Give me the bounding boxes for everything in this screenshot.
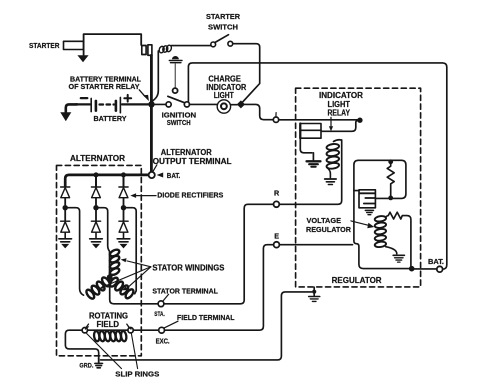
wire (relay coil right line to R wire) bbox=[341, 140, 343, 198]
stator winding (vertical phase coil) bbox=[109, 248, 120, 276]
wire (starter switch down to charge-light node) bbox=[233, 44, 260, 102]
pointer arrow (indicator light relay label) bbox=[329, 117, 333, 131]
indicator relay feed terminal bbox=[273, 117, 278, 122]
charge indicator light bulb bbox=[217, 100, 230, 113]
wire (terminal into regulator to relay junction) bbox=[279, 119, 358, 121]
wire (branch 2 lead) bbox=[95, 176, 97, 187]
wire (E terminal to regulator left rail) bbox=[279, 244, 352, 246]
ground (relay contact) bbox=[307, 161, 321, 166]
node (relay contact junction) bbox=[357, 118, 362, 123]
indicator light relay coil bbox=[326, 140, 342, 170]
slip ring 2 bbox=[128, 328, 133, 333]
wire (node to ignition switch) bbox=[155, 103, 166, 105]
alternator output bus (thick) bbox=[65, 175, 148, 186]
svg-text:ALTERNATOR: ALTERNATOR bbox=[70, 154, 125, 163]
wire (E terminal down to EXC line) bbox=[165, 245, 274, 331]
starter relay (open-bottom box) bbox=[84, 34, 142, 55]
node (stator Y-center) bbox=[107, 274, 113, 280]
wire (battery positive to node, thick) bbox=[122, 103, 149, 105]
EXC field terminal bbox=[159, 327, 165, 333]
ground GRD (rotor) bbox=[95, 358, 103, 368]
ground (diode 1) bbox=[59, 239, 72, 249]
svg-text:STARTER: STARTER bbox=[206, 12, 241, 21]
starter switch contact left bbox=[211, 42, 216, 47]
svg-text:FIELD: FIELD bbox=[97, 320, 120, 329]
node (diode midpoint 3) bbox=[121, 205, 126, 210]
wire (node to indicator-relay terminal) bbox=[244, 104, 273, 119]
pointer arrowhead (diode rectifiers label) bbox=[130, 193, 156, 198]
svg-text:STA.: STA. bbox=[154, 311, 165, 318]
node (charge light junction) bbox=[237, 100, 245, 108]
svg-text:SLIP RINGS: SLIP RINGS bbox=[115, 370, 159, 379]
pointer arrow (BAT label) bbox=[157, 173, 164, 178]
node (resistor top) bbox=[388, 159, 393, 164]
node (diode midpoint 2) bbox=[93, 205, 98, 210]
pointer line (stator terminal label) bbox=[163, 294, 169, 301]
rotating field coil bbox=[93, 331, 127, 342]
wire (slip ring 1 to rotor ground loop) bbox=[65, 330, 98, 358]
diode rectifier bottom 1 bbox=[61, 210, 70, 238]
brush tick (slip ring 2) bbox=[127, 324, 130, 328]
starter motor terminal bbox=[64, 41, 84, 49]
ground (diode 2) bbox=[90, 239, 103, 249]
ignition switch contact right bbox=[184, 102, 189, 107]
wire (battery negative lead) bbox=[76, 103, 90, 105]
voltage regulator upper loop with resistor bbox=[354, 160, 406, 198]
svg-text:SWITCH: SWITCH bbox=[208, 23, 238, 32]
diode rectifier bottom 2 bbox=[91, 210, 100, 238]
indicator light relay contact box bbox=[300, 124, 321, 139]
ignition switch contact left bbox=[166, 102, 171, 107]
node (bottom bus junction) bbox=[409, 266, 415, 272]
voltage regulator contact box bbox=[359, 190, 375, 208]
wire (relay contact to battery-terminal node, thick) bbox=[150, 55, 153, 102]
wire (branch 3 lead) bbox=[123, 176, 125, 187]
stator winding (right phase coil) bbox=[109, 276, 135, 299]
wire (ignition switch to charge indicator light) bbox=[189, 103, 217, 105]
svg-text:OF STARTER RELAY: OF STARTER RELAY bbox=[69, 82, 140, 91]
ground (VR contact box) bbox=[365, 210, 373, 214]
pointer arrow (voltage regulator label) bbox=[351, 221, 374, 228]
svg-text:RELAY: RELAY bbox=[328, 108, 351, 117]
ground (under starter relay) bbox=[77, 55, 88, 62]
starter relay contact terminal 2 bbox=[148, 45, 152, 56]
wire (fusible link riser from node) bbox=[152, 51, 159, 102]
wire (relay contact to ground) bbox=[300, 138, 313, 160]
ground (regulator case) bbox=[309, 287, 320, 301]
svg-text:REGULATOR: REGULATOR bbox=[306, 225, 351, 234]
svg-text:LIGHT: LIGHT bbox=[214, 91, 234, 100]
wire (common ground rail to regulator ground) bbox=[101, 292, 312, 360]
wire (relay coil bottom to ground) bbox=[327, 168, 330, 178]
svg-text:FIELD TERMINAL: FIELD TERMINAL bbox=[177, 313, 235, 322]
diode rectifier top 3 bbox=[119, 187, 128, 205]
pointer lines (stator windings label) bbox=[104, 261, 150, 288]
alternator dashed enclosure bbox=[57, 165, 142, 355]
stator winding (left phase coil) bbox=[85, 276, 111, 300]
wire (phase lead 1) bbox=[68, 208, 84, 296]
svg-text:E: E bbox=[274, 231, 279, 240]
node (diode midpoint 1) bbox=[62, 205, 67, 210]
diode rectifier top 1 bbox=[61, 187, 70, 205]
wire (battery-terminal node down to alternator BAT output, thick) bbox=[150, 104, 153, 171]
starter switch contact right bbox=[228, 41, 233, 46]
pointer line (alternator output terminal label) bbox=[153, 165, 157, 171]
node (bus junction 3) bbox=[121, 172, 126, 177]
pointer line (field terminal label) bbox=[164, 321, 178, 328]
wire (bulb to node) bbox=[231, 104, 238, 106]
slip ring 1 bbox=[82, 328, 87, 333]
wire (field winding between slip rings) bbox=[88, 329, 128, 331]
wire (stator neutral to STA terminal) bbox=[110, 280, 159, 304]
svg-text:BATTERY: BATTERY bbox=[94, 114, 127, 123]
regulator BAT terminal bbox=[437, 266, 443, 272]
svg-text:EXC.: EXC. bbox=[156, 339, 170, 346]
wire (contact box lead to left rail) bbox=[354, 190, 359, 192]
node (bus junction 2) bbox=[94, 172, 99, 177]
svg-text:ALTERNATOR: ALTERNATOR bbox=[161, 148, 212, 157]
pointer line (battery terminal label to node) bbox=[139, 90, 149, 101]
wire (bus to regulator BAT terminal) bbox=[414, 268, 437, 270]
ignition accessory contact bbox=[173, 88, 178, 93]
svg-text:STARTER: STARTER bbox=[29, 41, 60, 50]
node battery terminal of starter relay bbox=[148, 101, 154, 107]
ground (battery negative) bbox=[60, 104, 77, 121]
wire (fuse to starter switch) bbox=[171, 45, 211, 47]
starter switch blade bbox=[215, 35, 229, 43]
E relay terminal bbox=[274, 242, 280, 248]
capacitor/condenser dome on ignition accessory lead bbox=[169, 56, 182, 63]
wire (left rail down: E junction jog and bottom bus) bbox=[354, 191, 410, 269]
diode rectifier bottom 3 bbox=[119, 210, 128, 238]
resistor (field discharge, vertical) bbox=[387, 163, 394, 197]
pointer arrowheads (stator windings) bbox=[99, 258, 128, 290]
ground (relay coil) bbox=[325, 179, 336, 185]
voltage regulator coil bbox=[374, 215, 386, 247]
R relay terminal bbox=[274, 201, 280, 207]
wire (phase lead 2) bbox=[98, 208, 109, 275]
alternator BAT output terminal bbox=[149, 172, 155, 178]
svg-text:BAT.: BAT. bbox=[167, 173, 181, 180]
diode rectifier top 2 bbox=[91, 187, 100, 205]
svg-text:SWITCH: SWITCH bbox=[167, 118, 191, 127]
battery bbox=[81, 95, 131, 113]
ignition switch blade bbox=[168, 96, 186, 103]
starter relay contact terminal 1 bbox=[142, 46, 146, 55]
svg-text:DIODE RECTIFIERS: DIODE RECTIFIERS bbox=[157, 190, 223, 199]
resistor (voltage regulator, horizontal zigzag) bbox=[385, 212, 411, 266]
pointer ticks (rotating field label) bbox=[85, 327, 131, 329]
svg-text:R: R bbox=[274, 188, 280, 197]
fuse resistance-wire coil bbox=[158, 45, 172, 54]
regulator dashed enclosure bbox=[296, 88, 421, 287]
wire (phase lead 3) bbox=[126, 208, 136, 294]
svg-text:OUTPUT TERMINAL: OUTPUT TERMINAL bbox=[153, 157, 232, 166]
pointer lines (slip rings label) bbox=[86, 333, 137, 368]
svg-text:GRD.: GRD. bbox=[79, 363, 93, 370]
terminal pin tick bbox=[275, 113, 277, 117]
svg-text:STATOR TERMINAL: STATOR TERMINAL bbox=[152, 286, 218, 295]
wire (R terminal down to STA terminal) bbox=[164, 204, 274, 303]
wire (slip ring 2 to EXC field terminal) bbox=[133, 329, 158, 331]
svg-text:REGULATOR: REGULATOR bbox=[332, 276, 382, 285]
ground (voltage regulator coil) bbox=[393, 255, 404, 262]
svg-text:INDICATOR: INDICATOR bbox=[319, 91, 363, 100]
ground (diode 3) bbox=[117, 239, 130, 249]
svg-text:BAT.: BAT. bbox=[428, 257, 444, 266]
wire (VR coil bottom to ground) bbox=[386, 247, 397, 254]
svg-text:STATOR WINDINGS: STATOR WINDINGS bbox=[152, 263, 225, 272]
wire (relay contact right lead up to junction) bbox=[321, 120, 359, 131]
brush tick (slip ring 1) bbox=[86, 324, 89, 328]
wire (R terminal to relay coil) bbox=[279, 198, 341, 205]
wire (ignition switch feed: up, across top, down right side to regulator BAT) bbox=[188, 63, 446, 269]
wire (accessory lead down to ignition switch) bbox=[174, 64, 176, 88]
node (resistor bottom) bbox=[388, 196, 393, 201]
STA stator terminal bbox=[158, 301, 164, 307]
svg-text:CHARGE: CHARGE bbox=[208, 74, 241, 83]
